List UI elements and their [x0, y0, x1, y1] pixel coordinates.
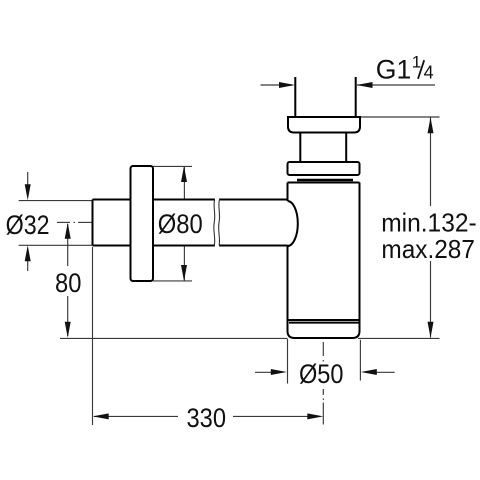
svg-text:Ø50: Ø50	[299, 359, 344, 389]
svg-text:1: 1	[412, 52, 421, 71]
svg-text:330: 330	[187, 403, 227, 433]
svg-text:Ø80: Ø80	[158, 209, 203, 239]
svg-text:Ø32: Ø32	[6, 210, 50, 240]
svg-text:4: 4	[424, 62, 434, 82]
svg-text:G1: G1	[376, 54, 412, 84]
svg-text:80: 80	[55, 268, 81, 298]
svg-text:max.287: max.287	[381, 234, 475, 264]
